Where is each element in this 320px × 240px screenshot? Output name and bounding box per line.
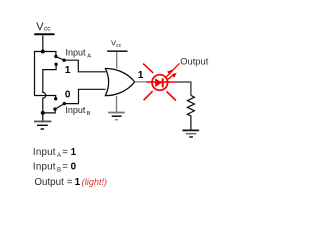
LED emission arrow short <box>168 74 176 80</box>
switch SW-A contact A <box>54 55 57 58</box>
switch SW-B contact C <box>54 97 57 100</box>
svg-text:V: V <box>36 21 44 33</box>
power symbol VCC1 label <box>36 21 51 33</box>
node junction VCC <box>41 50 45 54</box>
switch SW-B pole dot <box>63 102 66 105</box>
light ray bottom-left <box>144 91 153 100</box>
caption line 3: Output = 1 (light!) <box>34 177 107 188</box>
svg-text:Input: Input <box>66 48 87 58</box>
wire pole A to OR input 1 <box>64 60 106 72</box>
switch SW-A lever (closed to A) <box>56 57 64 61</box>
wire inner ground rail with hop <box>43 64 56 113</box>
svg-text:=: = <box>67 177 73 188</box>
svg-text:Input: Input <box>33 147 56 158</box>
wire ground stub <box>42 113 44 121</box>
svg-text:0: 0 <box>71 162 77 173</box>
switch SW-A pole dot <box>62 59 65 62</box>
wire bottom to contact D <box>43 109 55 113</box>
power symbol VCC2 label <box>111 38 122 49</box>
svg-text:A: A <box>57 153 61 159</box>
label InputB <box>65 105 90 117</box>
switch SW-B lever (closed to D) <box>55 104 64 110</box>
wire resistor to ground <box>190 117 192 130</box>
or-gate U1 <box>105 68 134 95</box>
svg-text:Input: Input <box>65 105 86 115</box>
svg-text:A: A <box>87 53 91 59</box>
switch SW-A contact B <box>54 63 57 66</box>
switch SW-B contact D <box>53 107 56 110</box>
caption line 2: InputB = 0 <box>33 162 77 174</box>
wire through LED (red) <box>147 81 175 83</box>
LED D1 cathode bar <box>162 78 164 87</box>
wire pole B to OR input 2 <box>64 89 105 103</box>
svg-text:1: 1 <box>138 70 144 81</box>
LED D1 anode triangle <box>155 78 162 87</box>
svg-text:B: B <box>87 111 91 117</box>
svg-text:Output: Output <box>180 55 209 66</box>
ground GND2 <box>108 113 125 120</box>
svg-text:(light!): (light!) <box>82 177 108 187</box>
svg-text:B: B <box>57 168 61 174</box>
LED emission arrow long (to Output label) <box>166 63 180 77</box>
LED D1 circle <box>152 75 168 91</box>
svg-text:0: 0 <box>65 90 71 101</box>
svg-text:1: 1 <box>71 147 77 158</box>
power symbol VCC2 bar <box>107 50 127 52</box>
ground GND3 <box>182 130 199 137</box>
light ray top-left <box>143 64 153 74</box>
node junction ground rail <box>41 111 45 115</box>
wire LED to resistor <box>175 82 191 95</box>
caption line 1: InputA = 1 <box>33 147 77 159</box>
svg-text:cc: cc <box>116 43 122 49</box>
wire VCC2 drop (gray) <box>116 52 118 68</box>
wire top rail to contact A <box>35 52 56 57</box>
svg-text:1: 1 <box>65 65 71 76</box>
wire VCC1 drop <box>42 36 44 52</box>
wire left VCC rail down to contact C <box>35 51 56 99</box>
ground GND1 <box>34 121 51 129</box>
svg-text:cc: cc <box>44 25 51 32</box>
resistor R1 <box>187 95 194 117</box>
power symbol VCC1 bar <box>34 33 54 35</box>
svg-text:=: = <box>62 162 68 173</box>
light ray bottom-right <box>167 92 176 101</box>
svg-text:1: 1 <box>75 177 81 188</box>
svg-text:Input: Input <box>33 162 56 173</box>
svg-text:=: = <box>62 147 68 158</box>
svg-text:Output: Output <box>34 177 64 188</box>
label InputA <box>66 48 92 60</box>
wire OR gate ground drop (gray) <box>116 96 118 112</box>
wire gate output (gray) <box>135 81 148 83</box>
